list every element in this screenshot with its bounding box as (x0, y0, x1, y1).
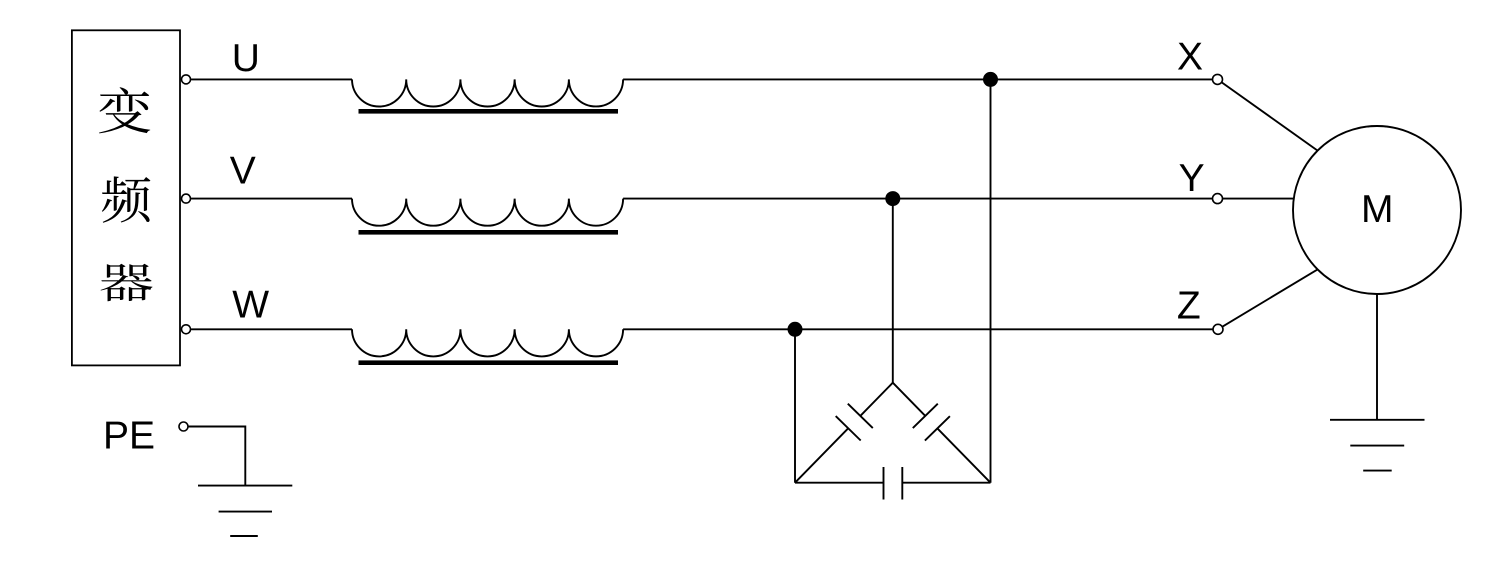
svg-text:W: W (232, 283, 269, 326)
svg-text:Y: Y (1179, 157, 1205, 200)
svg-text:X: X (1177, 36, 1203, 79)
svg-text:U: U (232, 37, 260, 80)
svg-text:V: V (230, 150, 256, 193)
svg-text:Z: Z (1177, 285, 1201, 328)
svg-text:PE: PE (103, 414, 155, 457)
svg-text:M: M (1361, 188, 1394, 231)
